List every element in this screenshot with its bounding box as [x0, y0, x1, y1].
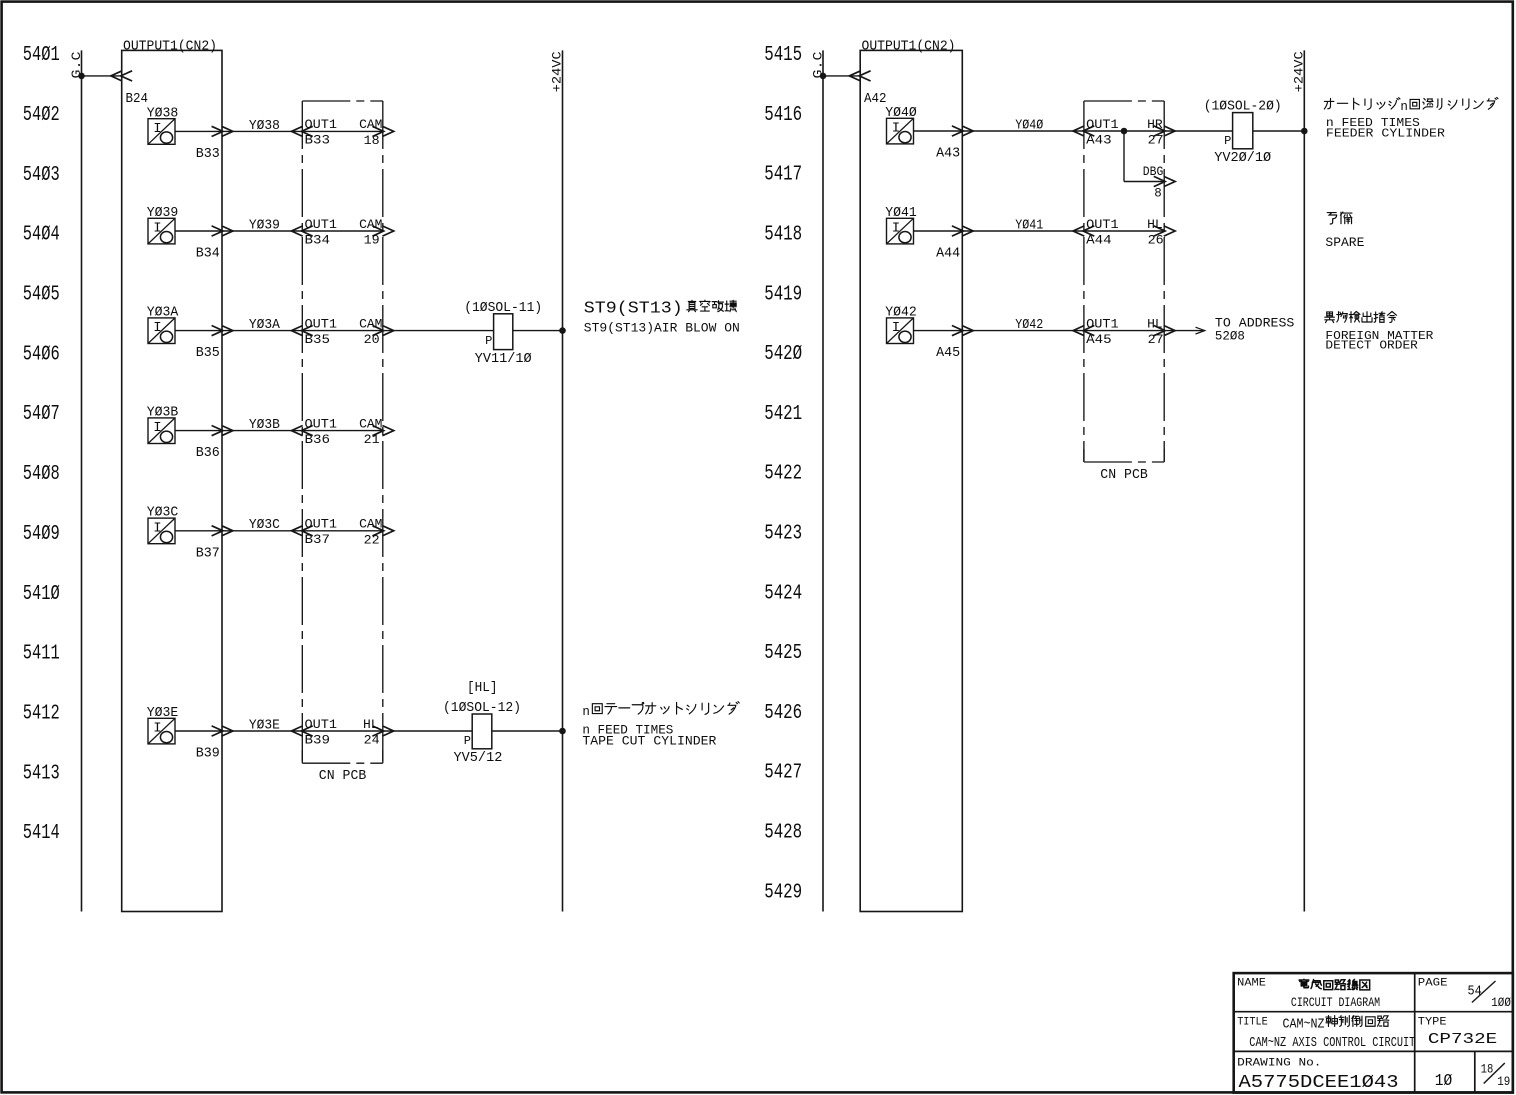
svg-text:20: 20	[364, 333, 380, 347]
svg-text:B36: B36	[305, 433, 331, 447]
svg-text:B39: B39	[196, 747, 220, 762]
svg-text:B35: B35	[305, 333, 331, 347]
svg-text:YØ3A: YØ3A	[249, 318, 281, 333]
svg-text:CN PCB: CN PCB	[319, 768, 367, 784]
svg-text:5419: 5419	[764, 283, 802, 306]
svg-text:CAM: CAM	[359, 417, 382, 431]
svg-text:+24VC: +24VC	[1293, 51, 1307, 92]
svg-text:A43: A43	[1086, 133, 1112, 147]
svg-text:19: 19	[364, 234, 380, 248]
svg-text:SPARE: SPARE	[1325, 236, 1364, 250]
svg-text:CAM: CAM	[359, 118, 382, 132]
svg-text:CAM: CAM	[359, 218, 382, 232]
svg-text:5411: 5411	[23, 643, 60, 666]
svg-text:I: I	[153, 320, 161, 336]
svg-text:19: 19	[1497, 1074, 1510, 1089]
svg-text:54Ø7: 54Ø7	[23, 403, 60, 426]
svg-text:5426: 5426	[764, 702, 802, 725]
svg-text:OUT1: OUT1	[1086, 118, 1119, 132]
svg-text:DBG: DBG	[1143, 165, 1164, 179]
svg-text:A45: A45	[936, 346, 960, 361]
svg-text:I: I	[892, 121, 900, 137]
svg-text:OUTPUT1(CN2): OUTPUT1(CN2)	[123, 39, 217, 54]
svg-text:+24VC: +24VC	[551, 51, 565, 92]
svg-text:DRAWING No.: DRAWING No.	[1237, 1058, 1321, 1070]
svg-text:B36: B36	[196, 446, 220, 461]
svg-text:YØ3B: YØ3B	[249, 418, 280, 433]
svg-text:ST9(ST13): ST9(ST13)	[584, 298, 683, 317]
svg-text:P: P	[485, 334, 492, 348]
svg-text:OUT1: OUT1	[305, 317, 338, 331]
svg-text:ST9(ST13)AIR BLOW ON: ST9(ST13)AIR BLOW ON	[584, 321, 740, 335]
svg-text:HL: HL	[363, 718, 379, 732]
svg-text:CAM: CAM	[359, 518, 382, 532]
svg-text:(1ØSOL-12): (1ØSOL-12)	[443, 701, 521, 716]
svg-text:18: 18	[1481, 1061, 1494, 1076]
svg-text:YV5/12: YV5/12	[454, 751, 503, 766]
svg-text:A42: A42	[864, 92, 887, 107]
svg-text:I: I	[153, 420, 161, 436]
svg-text:5416: 5416	[764, 104, 802, 127]
svg-text:OUT1: OUT1	[305, 417, 338, 431]
svg-text:I: I	[153, 520, 161, 536]
svg-text:CIRCUIT DIAGRAM: CIRCUIT DIAGRAM	[1291, 995, 1380, 1010]
svg-text:8: 8	[1154, 187, 1162, 201]
svg-text:YV2Ø/1Ø: YV2Ø/1Ø	[1214, 151, 1271, 166]
svg-text:CAM~NZ: CAM~NZ	[1283, 1018, 1325, 1033]
svg-text:YØ39: YØ39	[249, 218, 280, 233]
svg-text:54Ø5: 54Ø5	[23, 284, 60, 307]
svg-text:YØ38: YØ38	[249, 119, 280, 134]
svg-text:(1ØSOL-2Ø): (1ØSOL-2Ø)	[1204, 100, 1282, 115]
svg-text:18: 18	[364, 134, 380, 148]
svg-text:5423: 5423	[764, 523, 802, 546]
svg-text:NAME: NAME	[1237, 978, 1266, 990]
svg-text:I: I	[892, 221, 900, 237]
svg-text:PAGE: PAGE	[1418, 978, 1448, 990]
svg-text:TITLE: TITLE	[1237, 1017, 1268, 1029]
svg-text:24: 24	[364, 734, 380, 748]
svg-text:B33: B33	[305, 134, 331, 148]
svg-text:5418: 5418	[764, 224, 802, 247]
svg-text:A45: A45	[1086, 333, 1112, 347]
svg-text:TAPE CUT CYLINDER: TAPE CUT CYLINDER	[582, 735, 717, 749]
svg-text:54Ø9: 54Ø9	[23, 523, 60, 546]
svg-text:CAM~NZ AXIS CONTROL CIRCUIT: CAM~NZ AXIS CONTROL CIRCUIT	[1249, 1035, 1415, 1051]
svg-text:B35: B35	[196, 346, 220, 361]
svg-text:YØ3E: YØ3E	[249, 718, 280, 733]
svg-text:YV11/1Ø: YV11/1Ø	[475, 352, 532, 367]
svg-text:I: I	[892, 320, 900, 336]
svg-text:TO ADDRESS: TO ADDRESS	[1215, 317, 1295, 331]
svg-text:541Ø: 541Ø	[23, 583, 60, 606]
svg-text:5424: 5424	[764, 582, 802, 605]
svg-text:OUT1: OUT1	[305, 218, 338, 232]
svg-text:5429: 5429	[764, 881, 802, 904]
svg-text:HL: HL	[1147, 218, 1163, 232]
svg-text:5413: 5413	[23, 762, 60, 785]
svg-text:54Ø4: 54Ø4	[23, 224, 60, 247]
svg-text:CN PCB: CN PCB	[1100, 467, 1148, 483]
svg-text:A5775DCEE1Ø43: A5775DCEE1Ø43	[1239, 1072, 1399, 1093]
svg-text:1Ø: 1Ø	[1435, 1072, 1453, 1091]
svg-text:P: P	[464, 734, 471, 748]
svg-text:5428: 5428	[764, 822, 802, 845]
svg-text:B37: B37	[196, 546, 220, 561]
svg-text:CP732E: CP732E	[1428, 1031, 1497, 1048]
svg-text:54Ø8: 54Ø8	[23, 463, 60, 486]
svg-text:TYPE: TYPE	[1418, 1017, 1447, 1029]
svg-text:B24: B24	[126, 92, 149, 107]
svg-text:A44: A44	[1086, 233, 1112, 247]
svg-text:52Ø8: 52Ø8	[1215, 330, 1245, 344]
svg-text:OUT1: OUT1	[1086, 218, 1119, 232]
svg-text:HR: HR	[1147, 118, 1163, 132]
svg-text:5415: 5415	[764, 44, 802, 67]
svg-text:5417: 5417	[764, 164, 802, 187]
svg-text:54Ø2: 54Ø2	[23, 104, 60, 127]
svg-text:54: 54	[1468, 983, 1482, 999]
svg-text:5427: 5427	[764, 762, 802, 785]
svg-text:n: n	[1400, 100, 1408, 114]
svg-text:I: I	[153, 721, 161, 737]
svg-text:YØ3C: YØ3C	[249, 518, 280, 533]
svg-text:B39: B39	[305, 733, 331, 747]
svg-text:5414: 5414	[23, 822, 60, 845]
svg-text:n: n	[582, 705, 590, 719]
svg-text:P: P	[1224, 134, 1231, 148]
svg-text:27: 27	[1148, 134, 1164, 148]
svg-text:OUT1: OUT1	[305, 118, 338, 132]
svg-text:54Ø3: 54Ø3	[23, 164, 60, 187]
svg-text:A43: A43	[936, 147, 960, 162]
svg-text:CAM: CAM	[359, 317, 382, 331]
svg-text:B37: B37	[305, 533, 331, 547]
svg-text:B34: B34	[196, 247, 220, 262]
svg-text:I: I	[153, 221, 161, 237]
svg-text:5425: 5425	[764, 642, 802, 665]
svg-text:54Ø1: 54Ø1	[23, 44, 60, 67]
svg-text:I: I	[153, 121, 161, 137]
svg-text:5422: 5422	[764, 463, 802, 486]
svg-text:5412: 5412	[23, 702, 60, 725]
svg-text:54Ø6: 54Ø6	[23, 343, 60, 366]
svg-text:FEEDER CYLINDER: FEEDER CYLINDER	[1326, 127, 1446, 141]
svg-text:OUT1: OUT1	[1086, 317, 1119, 331]
svg-text:A44: A44	[936, 247, 960, 262]
svg-text:B33: B33	[196, 147, 220, 162]
svg-text:B34: B34	[305, 233, 331, 247]
svg-text:1ØØ: 1ØØ	[1491, 996, 1511, 1010]
svg-text:22: 22	[364, 533, 380, 547]
svg-text:542Ø: 542Ø	[764, 343, 802, 366]
svg-text:DETECT ORDER: DETECT ORDER	[1325, 339, 1418, 353]
svg-text:OUT1: OUT1	[305, 718, 338, 732]
svg-text:YØ41: YØ41	[1015, 218, 1043, 233]
svg-text:21: 21	[364, 433, 380, 447]
svg-text:27: 27	[1148, 333, 1164, 347]
svg-text:HL: HL	[1147, 317, 1163, 331]
svg-text:(1ØSOL-11): (1ØSOL-11)	[464, 301, 542, 316]
svg-text:YØ42: YØ42	[1015, 318, 1043, 333]
svg-text:[HL]: [HL]	[467, 681, 498, 696]
svg-text:5421: 5421	[764, 403, 802, 426]
svg-text:YØ4Ø: YØ4Ø	[1015, 118, 1043, 133]
svg-text:26: 26	[1148, 234, 1164, 248]
svg-text:OUTPUT1(CN2): OUTPUT1(CN2)	[862, 39, 956, 54]
svg-text:OUT1: OUT1	[305, 518, 338, 532]
